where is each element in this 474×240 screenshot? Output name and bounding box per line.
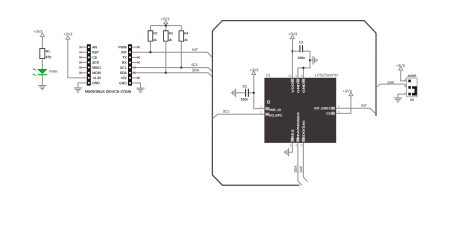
node junction C2/VDD — [291, 50, 293, 52]
wire CS to +3V3 — [336, 96, 351, 114]
wire +3V3 to R1 — [41, 36, 43, 48]
no-connect stub CS — [79, 56, 87, 58]
net label SA0 (vertical) — [299, 166, 303, 173]
net label SCL — [191, 63, 198, 67]
wire SA0 to ADDR jumper — [376, 84, 407, 87]
svg-text:INT_DRDY: INT_DRDY — [314, 106, 331, 110]
wire SDA net (header side) — [132, 72, 212, 77]
net label SDA (vertical) — [294, 165, 298, 173]
svg-text:+3V3: +3V3 — [34, 30, 43, 34]
svg-text:INT: INT — [192, 48, 199, 52]
power +3V3 (C1 / VDD_IO) — [250, 68, 259, 74]
wire C1 left to ground — [236, 92, 246, 94]
svg-text:RST: RST — [92, 50, 99, 54]
svg-text:R1: R1 — [46, 49, 50, 53]
svg-text:A2: A2 — [410, 98, 414, 102]
svg-text:SA0: SA0 — [299, 166, 303, 173]
ground (ADDR jumper) — [394, 98, 402, 102]
ground (left header) — [74, 88, 82, 92]
svg-text:2k: 2k — [184, 38, 188, 42]
svg-text:CS: CS — [92, 56, 97, 60]
wire INT_DRDY to INT net — [336, 108, 375, 113]
svg-text:LPS25HWTR: LPS25HWTR — [315, 73, 338, 77]
svg-text:GND: GND — [92, 81, 100, 85]
power +3V3 (VDD) — [288, 32, 297, 39]
svg-text:10: 10 — [288, 74, 292, 78]
svg-text:SCL: SCL — [191, 63, 198, 67]
svg-text:+3.3V: +3.3V — [92, 76, 102, 80]
resistor R4 2k — [179, 31, 188, 42]
svg-text:MIKROBUS DEVICE CONN: MIKROBUS DEVICE CONN — [85, 90, 132, 94]
wire jumper pad 1 to ground — [398, 94, 407, 98]
pin number 2 (SCL/SPC) — [260, 110, 262, 114]
svg-text:VDD: VDD — [291, 81, 295, 92]
svg-text:MOSI: MOSI — [92, 71, 101, 75]
svg-text:PWM: PWM — [118, 45, 126, 49]
wire SA0 (sensor side, down) — [303, 143, 307, 181]
no-connect stub TX — [132, 56, 140, 58]
pin number 1 (jumper) — [404, 90, 406, 94]
svg-text:INT: INT — [361, 104, 368, 108]
svg-text:SCL: SCL — [120, 66, 127, 70]
node junction gnd branch — [309, 59, 311, 61]
svg-text:SDA/SDI/SDO: SDA/SDI/SDO — [296, 112, 300, 139]
net label SA0 (jumper side) — [387, 80, 394, 84]
wire R1 to LED — [41, 59, 43, 70]
no-connect stub +5V — [132, 77, 140, 79]
svg-text:SDA: SDA — [294, 165, 298, 173]
svg-text:RES: RES — [291, 129, 295, 139]
svg-text:MISO: MISO — [92, 66, 101, 70]
no-connect stub RST — [79, 51, 87, 53]
wire R4 to SCL net — [180, 41, 182, 67]
wire R3 to SDA net — [165, 41, 167, 73]
svg-text:SCL/SPC: SCL/SPC — [269, 113, 283, 117]
wire +3V3 to VDD_IO pin — [254, 75, 265, 109]
svg-text:R2: R2 — [153, 31, 157, 35]
wire SCL net (header side) — [132, 66, 212, 71]
ground (RES, sideways left) — [284, 148, 288, 156]
wire C2 right to ground bus — [298, 51, 310, 68]
node junction R3/SDA — [165, 72, 167, 74]
power +3V3 (PWR LED branch) — [34, 30, 45, 37]
svg-text:2k: 2k — [153, 38, 157, 42]
no-connect stub MISO — [79, 66, 87, 68]
svg-text:R4: R4 — [184, 31, 188, 35]
svg-text:U1: U1 — [266, 73, 271, 77]
ground (PWR LED branch) — [38, 85, 46, 89]
node junction R4/SCL — [180, 66, 182, 68]
pin number 2 (jumper) — [404, 84, 406, 88]
pin number 4 (SDA/SDI/SDO) — [295, 143, 297, 147]
svg-text:INT: INT — [121, 50, 126, 54]
no-connect stub RX — [132, 61, 140, 63]
wire INT net (header side) — [132, 52, 212, 57]
node junction GND riser — [302, 67, 304, 69]
wire GND pin to ground (right header) — [132, 83, 141, 88]
capacitor C1 100n — [241, 85, 249, 102]
pin number 10 (VDD) — [288, 74, 292, 78]
svg-text:SA0: SA0 — [387, 80, 394, 84]
power +3V3 (pull-up rail) — [160, 17, 169, 24]
wire C1 right to +3V3 — [249, 92, 254, 94]
node junction R2/INT — [149, 51, 151, 53]
svg-text:470: 470 — [46, 55, 52, 59]
svg-text:ADDR: ADDR — [408, 74, 418, 78]
wire R2 to INT net — [149, 41, 151, 52]
wire +3V3 to +3.3V pin — [68, 39, 87, 78]
svg-text:VDD_IO: VDD_IO — [269, 108, 282, 112]
svg-text:GND: GND — [296, 81, 300, 92]
wire SCL net (sensor side) — [212, 114, 264, 118]
svg-text:CS: CS — [326, 112, 330, 116]
power +3V3 (ADDR jumper) — [396, 64, 405, 70]
node junction +3V3 rail — [165, 24, 167, 26]
svg-text:RX: RX — [122, 61, 127, 65]
no-connect stub SCK — [79, 61, 87, 63]
resistor R3 2k — [164, 31, 173, 42]
wire GND pin risers — [298, 68, 304, 78]
svg-text:AN: AN — [92, 45, 97, 49]
ground (C1, sideways left) — [231, 89, 235, 97]
wire LED to ground — [41, 74, 43, 85]
IC U1 LPS25HWTR pressure sensor — [264, 73, 338, 142]
wire gnd branch — [310, 59, 313, 61]
pin number 1 (VDD_IO) — [260, 105, 262, 109]
power +3V3 (CS pull-up) — [343, 89, 353, 95]
connector mikroBUS right header — [118, 44, 132, 85]
svg-text:SCL: SCL — [223, 110, 230, 114]
net label INT — [192, 48, 199, 52]
wire C2 left — [292, 50, 299, 52]
pin number 3 (RES) — [290, 143, 292, 147]
svg-text:SCK: SCK — [92, 61, 100, 65]
connector mikroBUS left header — [87, 44, 102, 85]
pin number 8 (GND) — [301, 74, 303, 78]
jumper ADDR SEL — [407, 74, 418, 102]
power +3V3 (mikroBUS 3.3V supply) — [63, 32, 72, 39]
net label INT (sensor side) — [361, 104, 368, 108]
pin number 3 (jumper) — [404, 77, 406, 81]
node junction C1/+3V3 — [253, 92, 255, 94]
svg-text:SDA: SDA — [192, 68, 200, 72]
wire GND pin to ground (left header) — [78, 83, 87, 88]
svg-text:GND: GND — [119, 81, 127, 85]
net label SCL (sensor side) — [223, 110, 230, 114]
board outline (sensor section boundary) — [212, 21, 376, 186]
pin number 9 (GND) — [295, 74, 297, 78]
wire RES to ground — [289, 143, 293, 152]
svg-text:+3V3: +3V3 — [343, 89, 352, 93]
svg-text:SDA: SDA — [120, 71, 128, 75]
wire +3V3 to jumper pad 3 — [401, 70, 407, 81]
svg-text:C1: C1 — [243, 85, 247, 89]
no-connect stub AN — [79, 46, 87, 48]
no-connect stub PWM — [132, 46, 140, 48]
svg-text:100n: 100n — [241, 98, 249, 102]
LED PWR (green) — [32, 68, 58, 75]
resistor R1 470 — [40, 49, 52, 60]
svg-text:+5V: +5V — [121, 76, 128, 80]
wire VDD riser — [291, 39, 293, 78]
svg-text:TX: TX — [122, 56, 127, 60]
resistor R2 2k — [148, 31, 157, 42]
pin number 5 (SDO/SA0) — [301, 143, 303, 147]
pin number 7 (INT_DRDY) — [338, 104, 340, 108]
svg-text:GND: GND — [302, 81, 306, 92]
pin number 6 (CS) — [338, 109, 340, 113]
svg-text:2k: 2k — [169, 38, 173, 42]
net label SDA — [192, 68, 200, 72]
svg-text:+3V3: +3V3 — [160, 17, 169, 21]
svg-text:SDO/SA0: SDO/SA0 — [302, 120, 306, 139]
svg-text:100n: 100n — [297, 56, 305, 60]
svg-text:R3: R3 — [169, 31, 173, 35]
wire +3V3 rail — [150, 24, 181, 31]
no-connect stub MOSI — [79, 72, 87, 74]
ground (right header) — [136, 88, 144, 92]
svg-text:PWR: PWR — [49, 70, 58, 74]
label MIKROBUS DEVICE CONN — [85, 90, 132, 94]
ground (C2, sideways right) — [313, 56, 317, 64]
svg-text:C2: C2 — [299, 41, 303, 45]
wire SDA (sensor side, down) — [298, 143, 302, 185]
capacitor C2 100n — [297, 41, 305, 61]
